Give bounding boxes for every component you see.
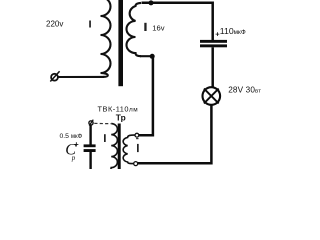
svg-text:220v: 220v: [46, 20, 63, 29]
T2 secondary top terminal: [135, 133, 139, 137]
svg-text:28V 30вт: 28V 30вт: [228, 86, 261, 95]
terminal X2 circle with slash: [89, 121, 93, 125]
transformer T2 primary winding: [108, 124, 117, 172]
wire top: T1 secondary to C1: [142, 3, 213, 41]
wire T1 secondary bottom lead to node A: [140, 55, 151, 57]
T2 secondary bottom terminal: [134, 162, 138, 166]
capacitor Cр bottom plate: [84, 149, 96, 152]
svg-text:16v: 16v: [152, 23, 164, 32]
wire T1 primary bottom lead: [59, 76, 105, 78]
transformer T1 primary winding: [101, 0, 111, 77]
wire Cр bottom: [89, 152, 91, 169]
dashed wire X2 to T2 primary: [94, 122, 111, 124]
capacitor Cр top plate: [84, 144, 96, 147]
winding label II (T1 secondary): [144, 23, 146, 31]
wire X2 down to Cр: [89, 125, 91, 144]
junction dot node A: [150, 54, 155, 59]
junction dot on top wire: [149, 0, 154, 5]
lamp HL1: [203, 87, 221, 105]
winding label I (T1 primary): [89, 21, 91, 28]
svg-text:р: р: [71, 154, 76, 162]
transformer T1 core: [118, 0, 123, 86]
capacitor C1 bottom plate: [200, 44, 227, 47]
winding label II (T2 secondary): [136, 138, 138, 139]
transformer T2 core: [118, 124, 121, 170]
svg-text:Тр: Тр: [116, 112, 126, 122]
transformer T2 secondary winding: [123, 135, 135, 164]
capacitor C1 top plate: [200, 40, 227, 43]
wire lamp bottom to T2 secondary bottom terminal: [138, 105, 212, 164]
winding label I (T2 primary): [104, 134, 106, 142]
svg-text:+: +: [74, 140, 79, 149]
terminal X1 circle with slash: [51, 74, 58, 81]
wire C1 to lamp: [211, 47, 214, 87]
svg-text:0.5 мкФ: 0.5 мкФ: [60, 133, 83, 140]
wire node A down to T2 secondary top terminal: [139, 56, 153, 135]
svg-text:110мкФ: 110мкФ: [220, 26, 246, 36]
transformer T1 secondary winding: [127, 3, 142, 56]
